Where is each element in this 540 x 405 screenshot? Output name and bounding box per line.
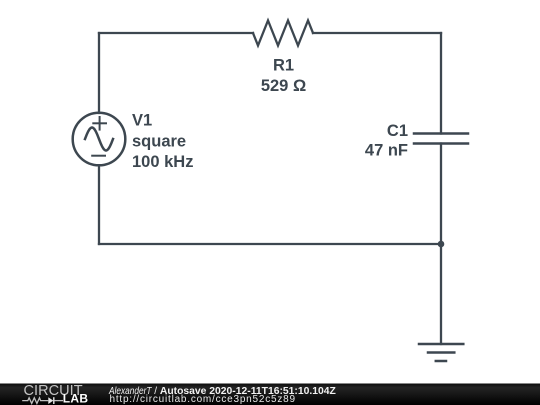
resistor R1 (253, 21, 313, 46)
svg-text:R1: R1 (273, 57, 294, 75)
logo diode (48, 397, 63, 404)
wire right rail down to C1 top plate (440, 33, 442, 134)
wire C1 bottom plate to junction node (440, 144, 442, 245)
capacitor C1 (414, 134, 468, 144)
svg-text:http://circuitlab.com/cce3pn52: http://circuitlab.com/cce3pn52c5z89 (110, 394, 296, 405)
wire from V1 + terminal up to top rail (98, 33, 100, 113)
svg-text:square: square (132, 133, 186, 151)
svg-text:C1: C1 (387, 122, 408, 140)
svg-text:LAB: LAB (63, 391, 89, 405)
ground (419, 344, 463, 361)
wire bottom rail (99, 243, 441, 245)
wire top rail left segment (99, 32, 253, 34)
svg-text:47 nF: 47 nF (365, 142, 408, 160)
wire from V1 - terminal down to bottom rail (98, 166, 100, 244)
svg-text:V1: V1 (132, 112, 152, 130)
junction node (438, 241, 445, 248)
wire top rail right segment (313, 32, 441, 34)
svg-text:529 Ω: 529 Ω (261, 77, 306, 95)
wire junction node down to ground (440, 244, 442, 344)
footer bar (0, 384, 540, 405)
logo resistor zigzag (22, 398, 48, 404)
voltage source V1 (73, 113, 126, 166)
svg-text:100 kHz: 100 kHz (132, 153, 193, 171)
